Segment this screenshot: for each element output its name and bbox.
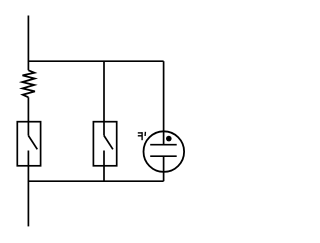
switch S1 blade (open diagonal) — [28, 136, 37, 150]
switch S1 top contact stub — [27, 122, 29, 136]
resistor R1 — [22, 70, 35, 97]
wire: right branch from top rail to tube anode — [163, 61, 165, 145]
discharge tube V1 upper plate — [150, 144, 177, 146]
switch S2 blade (open diagonal) — [104, 136, 113, 150]
discharge tube V1 gas-fill dot — [166, 136, 172, 142]
wire: left branch top lead — [27, 16, 29, 71]
switch S1 (box) — [17, 122, 40, 166]
wire: switch S2 to bottom rail — [103, 166, 105, 181]
switch S2 (box) — [93, 122, 116, 166]
wire: top rail — [28, 60, 163, 62]
wire: resistor to switch S1 — [27, 97, 29, 121]
annotation mark (small glyph left of tube) — [138, 132, 146, 140]
wire: bottom rail — [28, 180, 163, 182]
discharge tube V1 lower plate — [150, 155, 177, 157]
wire: middle branch from top rail to switch S2 — [103, 61, 105, 121]
wire: tube cathode down to bottom rail — [163, 156, 165, 181]
wire: switch S1 to bottom rail and lower lead — [27, 166, 29, 227]
switch S2 top contact stub — [103, 122, 105, 136]
switch S1 bottom contact stub — [27, 151, 29, 166]
discharge tube V1 envelope (circle) — [144, 131, 185, 172]
switch S2 bottom contact stub — [103, 151, 105, 166]
